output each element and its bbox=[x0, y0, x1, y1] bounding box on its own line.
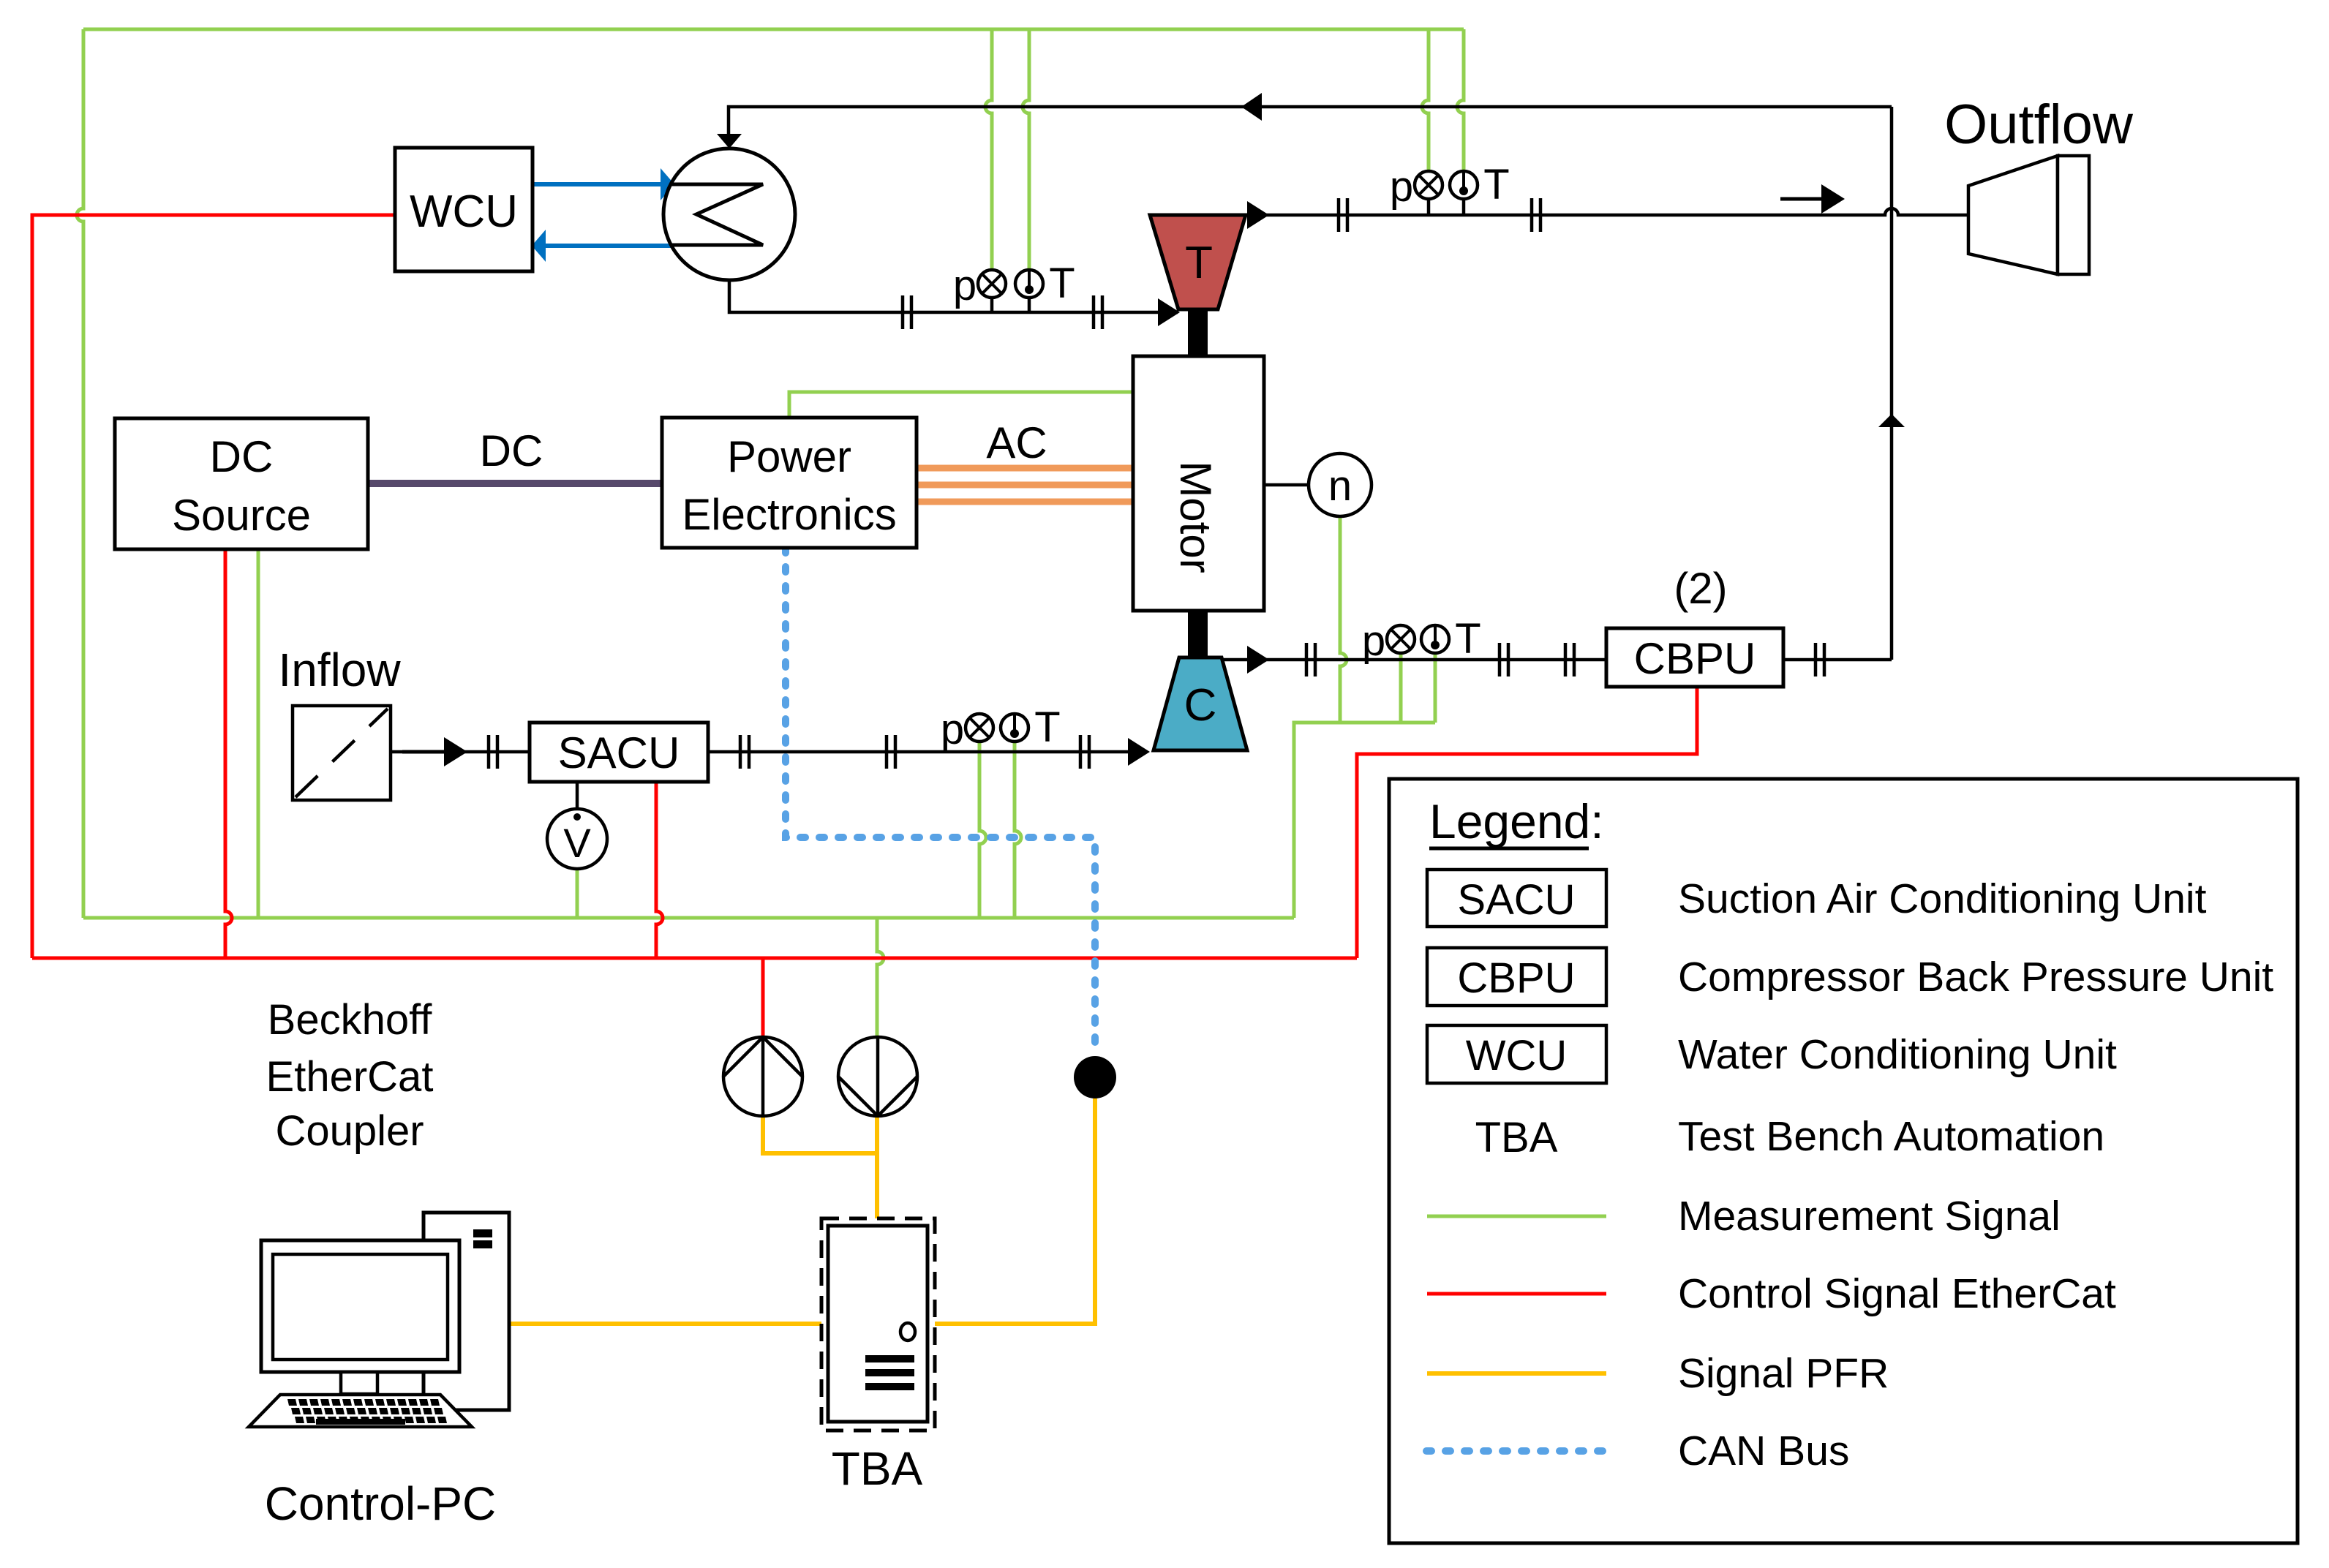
wire green left riser with hop over red WCU line bbox=[77, 29, 83, 918]
gauge pressure turbine outlet bbox=[1415, 171, 1442, 199]
pipe break on turbine inlet 1 bbox=[903, 295, 911, 329]
legend box bbox=[1389, 779, 2298, 1543]
wire green compressor T-gauge stem bbox=[1434, 652, 1437, 723]
pipe break after CBPU bbox=[1816, 643, 1824, 676]
gauge temperature HX outlet bbox=[1015, 270, 1043, 298]
gauge temperature compressor outlet bbox=[1421, 625, 1449, 653]
pipe break compressor outlet 3 bbox=[1565, 643, 1574, 676]
pipe SACU to compressor bbox=[708, 750, 1145, 754]
box Power Electronics bbox=[662, 418, 917, 548]
svg-text:CBPU: CBPU bbox=[1457, 954, 1575, 1002]
svg-text:Suction Air Conditioning Unit: Suction Air Conditioning Unit bbox=[1678, 875, 2207, 922]
pipe break SACU outlet 3 bbox=[1080, 735, 1089, 769]
gauge stem HX p bbox=[990, 298, 994, 312]
svg-text:Source: Source bbox=[172, 491, 311, 540]
pipe inflow to SACU bbox=[391, 750, 530, 754]
pipe break SACU outlet 2 bbox=[887, 735, 895, 769]
compressor C bbox=[1154, 657, 1247, 750]
coupler symbol right bbox=[838, 1037, 917, 1116]
arrow blue HX to WCU bbox=[532, 230, 674, 262]
svg-text:SACU: SACU bbox=[1457, 876, 1575, 924]
wire AC phase 1 bbox=[917, 465, 1133, 472]
svg-text:Measurement Signal: Measurement Signal bbox=[1678, 1193, 2061, 1240]
pipe break on turbine outlet 2 bbox=[1532, 198, 1540, 232]
arrow flow direction before outflow bbox=[1780, 184, 1845, 214]
svg-text:Power: Power bbox=[727, 432, 851, 481]
wire green riser to HX T-gauge (hop over return pipe) bbox=[1023, 29, 1029, 270]
wire green riser to turbine T-gauge (hop over return pipe) bbox=[1457, 29, 1464, 171]
turbine T bbox=[1150, 215, 1246, 309]
svg-text:DC: DC bbox=[480, 426, 543, 475]
TBA dashed frame bbox=[821, 1218, 935, 1431]
wire red drop to left EtherCat coupler bbox=[761, 958, 765, 1037]
wire amber control PC to TBA bbox=[509, 1322, 821, 1326]
svg-text:Control Signal EtherCat: Control Signal EtherCat bbox=[1678, 1270, 2116, 1317]
PC screen bbox=[273, 1254, 448, 1360]
heat exchanger circle bbox=[663, 148, 795, 280]
arrow turbine outlet bbox=[1247, 201, 1269, 229]
svg-text:n: n bbox=[1328, 462, 1352, 510]
wire red WCU control line bbox=[32, 215, 395, 958]
svg-text:WCU: WCU bbox=[410, 186, 518, 237]
TBA power button bbox=[900, 1323, 915, 1341]
gauge temperature SACU outlet bbox=[1001, 714, 1028, 742]
svg-text:Outflow: Outflow bbox=[1944, 94, 2134, 156]
TBA tower bbox=[828, 1226, 928, 1422]
wire green motor measurement to power electronics bbox=[789, 392, 1133, 418]
wire green V-gauge drop bbox=[576, 869, 579, 918]
svg-text:T: T bbox=[1049, 260, 1075, 307]
legend box SACU bbox=[1427, 870, 1606, 927]
PC stand bbox=[341, 1372, 377, 1394]
pipe break inflow-SACU bbox=[489, 735, 497, 769]
gauge V circle bbox=[547, 809, 607, 869]
PC keyboard bbox=[249, 1395, 472, 1427]
svg-text:Compressor Back Pressure Unit: Compressor Back Pressure Unit bbox=[1678, 954, 2273, 1000]
wire green SACU p-gauge drop (hop over CAN bus) bbox=[979, 740, 986, 918]
svg-text:Inflow: Inflow bbox=[278, 644, 401, 696]
svg-text:p: p bbox=[941, 706, 964, 753]
wire green riser to HX p-gauge (hop over return pipe) bbox=[985, 29, 992, 270]
wire green riser to turbine p-gauge (hop over return pipe) bbox=[1422, 29, 1429, 171]
gauge pressure HX outlet bbox=[978, 270, 1006, 298]
PC tower bbox=[424, 1213, 509, 1410]
svg-text:T: T bbox=[1455, 615, 1480, 663]
wire AC phase 3 bbox=[917, 499, 1133, 505]
gauge stem turbine T bbox=[1462, 199, 1466, 215]
arrow into compressor bbox=[1128, 738, 1150, 766]
arrow compressor outlet bbox=[1247, 646, 1269, 674]
legend sample signal PFR bbox=[1427, 1371, 1606, 1376]
svg-text:T: T bbox=[1185, 238, 1213, 288]
svg-text:Water Conditioning Unit: Water Conditioning Unit bbox=[1678, 1031, 2117, 1078]
pipe turbine outlet (hop over riser) bbox=[1246, 208, 1968, 215]
legend sample measurement signal bbox=[1427, 1215, 1606, 1218]
pipe break SACU outlet 1 bbox=[740, 735, 749, 769]
turbine shaft bbox=[1188, 309, 1208, 356]
arrow left on return line bbox=[1241, 93, 1262, 121]
svg-text:SACU: SACU bbox=[558, 728, 680, 777]
wire amber right coupler to TBA bbox=[875, 1117, 879, 1218]
svg-text:Legend:: Legend: bbox=[1429, 794, 1604, 848]
wire green drop to right EtherCat coupler (hop over red bus) bbox=[877, 918, 884, 1037]
pipe break compressor outlet 1 bbox=[1306, 643, 1315, 676]
svg-text:TBA: TBA bbox=[832, 1442, 923, 1495]
wire green top bus bbox=[83, 28, 1464, 31]
TBA vents bbox=[865, 1355, 914, 1362]
node CAN bus junction dot bbox=[1074, 1056, 1116, 1098]
svg-text:Beckhoff: Beckhoff bbox=[268, 996, 433, 1044]
wire green DC source drop bbox=[257, 549, 260, 918]
outflow funnel bbox=[1968, 156, 2058, 274]
pipe break on turbine inlet 2 bbox=[1094, 295, 1102, 329]
arrow up on riser bbox=[1878, 414, 1905, 427]
svg-text:T: T bbox=[1034, 704, 1060, 751]
gauge stem turbine p bbox=[1427, 199, 1431, 215]
box DC Source bbox=[115, 418, 368, 549]
pipe CBPU to riser bbox=[1783, 658, 1892, 662]
svg-text:p: p bbox=[1390, 163, 1413, 211]
svg-text:(2): (2) bbox=[1674, 564, 1727, 613]
gauge pressure SACU outlet bbox=[966, 714, 993, 742]
arrow into turbine bbox=[1158, 298, 1180, 326]
svg-text:WCU: WCU bbox=[1466, 1032, 1568, 1079]
svg-text:Motor: Motor bbox=[1171, 461, 1220, 573]
gauge V stem bbox=[576, 782, 579, 809]
wire red CBPU control line bbox=[1357, 688, 1697, 958]
pipe break compressor outlet 2 bbox=[1500, 643, 1508, 676]
wire amber CAN node to TBA bbox=[935, 1098, 1095, 1324]
outflow funnel flange bbox=[2058, 156, 2089, 274]
wire CAN bus dashed blue bbox=[786, 548, 1095, 1053]
heat exchanger zigzag bbox=[671, 184, 763, 245]
svg-text:Electronics: Electronics bbox=[682, 490, 896, 539]
svg-text:Coupler: Coupler bbox=[275, 1107, 424, 1155]
box SACU bbox=[530, 723, 708, 782]
gauge temperature turbine outlet bbox=[1450, 171, 1478, 199]
wire amber left coupler to junction bbox=[763, 1117, 877, 1153]
svg-text:Control-PC: Control-PC bbox=[265, 1477, 497, 1530]
wire green compressor p-gauge stem bbox=[1399, 652, 1403, 723]
svg-text:V: V bbox=[563, 820, 591, 866]
svg-text:CAN Bus: CAN Bus bbox=[1678, 1428, 1849, 1474]
svg-text:Test Bench Automation: Test Bench Automation bbox=[1678, 1113, 2104, 1160]
svg-text:EtherCat: EtherCat bbox=[266, 1053, 434, 1101]
gauge n circle bbox=[1309, 453, 1372, 516]
PC keyboard keys bbox=[287, 1399, 297, 1406]
pipe compressor outlet to CBPU bbox=[1222, 658, 1606, 662]
pipe return line to HX bbox=[729, 107, 1892, 134]
svg-text:Signal PFR: Signal PFR bbox=[1678, 1350, 1889, 1397]
wire red SACU drop (hop over green bus) bbox=[656, 782, 663, 958]
legend sample control signal bbox=[1427, 1292, 1606, 1296]
arrow blue WCU to HX bbox=[533, 168, 674, 200]
pipe HX to turbine inlet bbox=[729, 280, 1178, 312]
box Motor bbox=[1133, 356, 1264, 611]
wire n gauge link bbox=[1264, 483, 1309, 487]
pipe riser CBPU to return line bbox=[1890, 107, 1894, 660]
PC tower slots bbox=[473, 1229, 492, 1237]
svg-text:T: T bbox=[1483, 161, 1509, 208]
svg-text:TBA: TBA bbox=[1475, 1114, 1558, 1161]
svg-text:AC: AC bbox=[986, 418, 1047, 467]
legend box CBPU bbox=[1427, 948, 1606, 1006]
wire green SACU T-gauge drop (hop over CAN bus) bbox=[1015, 740, 1021, 918]
svg-text:CBPU: CBPU bbox=[1634, 634, 1756, 683]
wire red control bus bbox=[32, 957, 1357, 960]
legend box WCU bbox=[1427, 1025, 1606, 1083]
compressor shaft bbox=[1188, 611, 1208, 657]
wire red DC source drop (hop over green bus) bbox=[225, 549, 232, 958]
svg-text:C: C bbox=[1184, 680, 1217, 731]
wire green measurement bus (bottom) bbox=[83, 916, 1294, 920]
legend sample CAN bus bbox=[1426, 1447, 1609, 1455]
svg-text:p: p bbox=[953, 262, 977, 309]
arrow inflow bbox=[402, 737, 467, 766]
wire DC link bbox=[368, 480, 662, 487]
PC monitor bbox=[261, 1240, 459, 1372]
wire green n-gauge drop (hop over compressor outlet pipe) bbox=[1340, 516, 1347, 723]
wire AC phase 2 bbox=[917, 482, 1133, 489]
inflow square diagonal bbox=[296, 709, 388, 797]
box WCU bbox=[395, 148, 533, 271]
gauge pressure compressor outlet bbox=[1387, 625, 1415, 653]
gauge stem HX T bbox=[1028, 298, 1031, 312]
coupler symbol left bbox=[723, 1037, 802, 1116]
pipe break on turbine outlet 1 bbox=[1339, 198, 1347, 232]
box CBPU bbox=[1606, 628, 1783, 687]
svg-text:DC: DC bbox=[210, 432, 274, 481]
wire green compressor gauges mini-bus bbox=[1294, 723, 1435, 918]
arrow down into HX bbox=[717, 134, 742, 148]
inflow source square bbox=[293, 706, 391, 800]
svg-text:p: p bbox=[1362, 617, 1385, 665]
